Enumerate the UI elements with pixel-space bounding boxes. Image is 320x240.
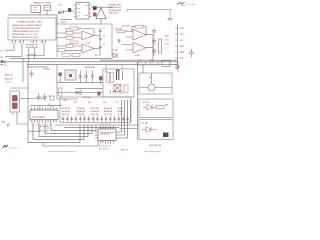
relay S1 [65,70,76,80]
capacitor C2 [93,6,97,10]
led DL1 [59,73,62,83]
staircase wire 4 [33,123,84,140]
svg-text:AC1 AC2: AC1 AC2 [28,53,36,56]
diode D7 [143,105,156,111]
relay box K1 [139,73,172,94]
capacitor C11 [152,38,156,46]
resistor R13 vertical [159,39,162,53]
capacitor C19 [91,71,94,83]
svg-text:JP1: JP1 [74,102,77,104]
svg-text:R12 100k: R12 100k [122,26,131,28]
staircase wire 6 [43,141,98,147]
svg-text:230V: 230V [61,22,66,24]
wire above u5 [30,105,62,107]
wire drops [26,43,44,62]
wire [63,10,74,12]
resistor R1 [93,13,97,17]
svg-text:C21: C21 [48,96,51,98]
xtal X1 [13,96,18,102]
staircase wire 3 [39,123,88,137]
capacitor C4 [99,31,102,32]
wires U4A [125,27,153,62]
svg-text:VREF: VREF [180,52,186,54]
bus wire A [10,57,112,59]
resistor R4 [66,31,73,34]
svg-text:- MAINS 230V AC INPUT STAGE: - MAINS 230V AC INPUT STAGE [11,24,42,27]
svg-text:schematics.eu: schematics.eu [9,147,21,150]
capacitor C3 [168,19,173,20]
svg-text:R19: R19 [138,60,141,62]
bus wire B [1,61,178,63]
svg-text:POWER CONTROL UNIT: POWER CONTROL UNIT [17,21,43,23]
small box under u5 [40,127,48,132]
bus wire C [27,64,178,66]
svg-text:R21: R21 [165,104,168,106]
coil right [122,71,124,80]
svg-text:K2 12V: K2 12V [143,102,150,104]
wires U3A [57,28,100,56]
svg-text:FUSE: FUSE [46,3,52,5]
svg-text:A4 A5 A6: A4 A5 A6 [104,107,112,110]
svg-text:C7: C7 [103,28,105,30]
svg-text:D0 D1 D2: D0 D1 D2 [62,108,70,110]
pin labels below note box [11,42,43,44]
terminal block [1,61,7,67]
svg-text:J3: J3 [4,65,6,67]
op-amp U4A [133,29,146,40]
resistor R5 [66,36,73,39]
resistor R23 [62,53,70,56]
wire vertical x23 [22,58,24,82]
wire u6 vertical [130,100,132,122]
resistor R18 [59,88,62,96]
svg-text:relay output stage: relay output stage [144,150,160,153]
wires U4B [122,45,153,51]
svg-text:R10 10k: R10 10k [115,28,123,30]
resistor R19 [138,62,146,65]
wires right of u6 [120,100,138,138]
svg-text:B6 B7 B8: B6 B7 B8 [104,111,112,113]
svg-text:SEC 2x15V 1A: SEC 2x15V 1A [109,6,122,9]
svg-text:- RELAY OUTPUTS K1 K2 K3: - RELAY OUTPUTS K1 K2 K3 [11,36,39,39]
bottom bus 3 [64,127,119,129]
diode D8 [142,127,158,133]
ground [6,124,10,127]
lamp X2 [114,85,121,92]
svg-text:- FILTER AND FUSE 2A SLOW: - FILTER AND FUSE 2A SLOW [11,27,39,30]
core top mark [116,70,120,72]
bottom bus 2 [55,124,138,126]
wires k1 [139,65,172,88]
svg-text:C9: C9 [103,44,105,46]
wire vertical x28 [27,62,29,143]
resistor R15 [107,73,110,83]
svg-text:P3 P4 P5: P3 P4 P5 [77,113,85,116]
svg-text:JP2: JP2 [88,102,91,104]
pin label grid row3 [62,113,123,116]
svg-text:B3 B4: B3 B4 [118,110,123,113]
wire drop N1 [5,43,22,57]
wire [91,6,113,8]
svg-text:C8: C8 [103,36,105,38]
svg-text:1 2 3 4 5 6 7 8 9: 1 2 3 4 5 6 7 8 9 [31,124,51,127]
svg-text:P0 P1 P2: P0 P1 P2 [62,114,70,116]
wire drop L1 [5,43,14,50]
staircase wire 5 [28,125,80,143]
staircase wire 1 [51,123,96,131]
resistor R16 [111,73,114,83]
svg-text:IC1B: IC1B [135,55,140,57]
svg-text:BRIDGE B1: BRIDGE B1 [85,67,95,69]
transistor Q2 [96,8,106,19]
big connector box [60,97,131,122]
svg-text:IC1A: IC1A [86,42,91,45]
wires U3B [57,46,100,50]
capacitor C16 [30,70,34,78]
box F2 [162,61,170,67]
capacitor row [62,116,129,122]
logo [177,2,196,6]
resistor R20 [150,62,158,65]
bus wire B2 [100,59,178,61]
svg-text:C6 C7 C8: C6 C7 C8 [104,114,112,116]
resistor R12 [135,25,143,28]
pin label grid row1 [62,107,123,110]
svg-text:- REGULATED +5V -5V +12V: - REGULATED +5V -5V +12V [11,33,38,36]
capacitor C15 [189,49,194,57]
svg-text:eschema: eschema [186,4,196,6]
svg-text:GND: GND [1,122,6,124]
resistor R10 [117,30,125,33]
resistor R17 [124,85,128,93]
svg-text:S1: S1 [31,42,33,44]
box lower left [10,91,20,112]
svg-text:S2: S2 [41,42,43,44]
wire vertical right [137,62,139,140]
svg-text:A3 RW EN: A3 RW EN [77,110,86,113]
svg-text:+12V: +12V [180,28,185,30]
svg-text:K1: K1 [149,77,151,79]
svg-text:REV 1.2: REV 1.2 [121,149,128,151]
wire drops to transformer [106,65,122,69]
marks above big box [98,92,101,96]
bottom left logo [3,145,21,150]
svg-text:K3 12V: K3 12V [142,122,149,124]
capacitor C9b [118,39,121,44]
wire gnd stub [60,19,72,21]
connector J1 [31,5,41,12]
pins of box [13,112,28,124]
resistor R6 feedback A [70,27,78,30]
net stub column [175,24,178,68]
svg-text:R25 4k7: R25 4k7 [44,67,51,70]
pins of note box [13,40,46,43]
svg-text:1 2 3 4 5 6: 1 2 3 4 5 6 [99,123,110,126]
resistor R3 [33,45,37,48]
resistor R9 feedback B [70,41,78,44]
op-amp U3B [82,44,94,53]
capacitor C10 [152,28,156,36]
wire feedback A [66,29,94,36]
svg-text:D1 D2: D1 D2 [112,50,117,52]
motor M1 [148,84,155,91]
resistor R24 [72,53,80,56]
capacitor C6 [99,47,102,48]
fuse F1 [44,5,51,10]
capacitor C12 [152,48,156,56]
note box [8,18,56,40]
svg-text:CS RS W1: CS RS W1 [91,111,100,113]
svg-text:C22 100n: C22 100n [83,97,92,99]
IC U1 [74,2,91,19]
pin label grid row2 [62,110,123,113]
transformer core [117,71,119,81]
svg-text:C3 C4: C3 C4 [118,113,123,116]
svg-text:MAINS FLT: MAINS FLT [34,2,45,5]
relay box K3 [139,120,173,140]
svg-text:P6 P7 P8: P6 P7 P8 [91,114,99,116]
wire y131 [28,130,40,132]
IC U6 [95,126,120,144]
wire hline y98.5 [20,98,47,100]
resistor R2 [27,45,31,48]
svg-text:- TRANSFORMER 2x15V OUT: - TRANSFORMER 2x15V OUT [11,30,40,33]
svg-text:K1 K2 K3: K1 K2 K3 [99,149,109,151]
diode D3 [79,71,82,83]
svg-text:CN2: CN2 [63,100,67,102]
svg-text:R11: R11 [95,55,98,57]
svg-text:0V 15V: 0V 15V [118,93,125,95]
capacitor C1 [68,8,71,12]
capacitor C5 [99,39,102,40]
svg-text:REG -5V: REG -5V [5,78,13,80]
small box y96 [50,96,54,100]
wires psu [57,65,103,99]
IC U5 [30,107,58,122]
svg-text:R20: R20 [150,60,153,62]
transistor Q1 [58,10,63,14]
net labels [180,28,186,60]
resistor R7 [66,44,73,47]
amp block box [57,24,112,57]
svg-text:B1 B2: B1 B2 [118,108,123,110]
staircase wire 2 [45,123,92,134]
svg-text:D6 D7 D8: D6 D7 D8 [91,108,99,110]
svg-text:C13: C13 [165,39,168,41]
wire box top [10,87,28,89]
xtal X2 [13,103,18,109]
diode D6 [176,62,179,72]
svg-text:GND: GND [180,46,185,48]
capacitor C18 [43,94,47,101]
svg-text:8 9 A B C D: 8 9 A B C D [99,145,112,148]
wire stub [27,66,48,68]
svg-text:power control main board rev c: power control main board rev c [48,150,76,153]
resistor R8 [58,49,65,52]
op-amp U3A [82,31,94,40]
diode D4 [85,71,88,83]
label u6 [100,133,114,134]
label reg3 [6,81,11,83]
transformer box [103,69,134,97]
svg-text:REG +5V: REG +5V [5,74,13,76]
pins transformer bottom [111,91,116,94]
diode D1 [113,53,117,58]
svg-text:10k: 10k [103,102,106,104]
svg-text:D3 D4 D5: D3 D4 D5 [77,107,85,110]
svg-text:TR 30VA FUSE: TR 30VA FUSE [109,9,122,12]
diode D9 [163,133,169,138]
resistor R21 [156,106,164,109]
wire [100,19,102,24]
svg-text:IC2 PIC16F877: IC2 PIC16F877 [32,117,45,119]
svg-text:T2A SLOW: T2A SLOW [109,11,119,14]
wire net [127,9,172,18]
svg-text:OUT 230V 5A: OUT 230V 5A [149,144,162,147]
sparse labels [74,102,119,104]
diode D5 [76,91,81,95]
relay box K2 [139,99,173,118]
capacitor C17 [37,94,41,101]
wire top [9,10,58,24]
svg-text:A0 A1 A2: A0 A1 A2 [62,110,70,113]
led DL2 [99,76,103,84]
op-amp U4B [133,42,146,53]
